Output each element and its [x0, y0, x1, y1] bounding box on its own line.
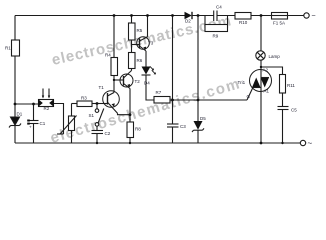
wire fuse to terminal — [288, 15, 305, 17]
wire R10 to fuse — [251, 15, 272, 17]
wire R8 to rail — [129, 138, 131, 144]
LED D4 — [142, 66, 156, 85]
svg-text:C1: C1 — [40, 121, 46, 126]
svg-text:G: G — [247, 94, 251, 99]
svg-text:R1: R1 — [5, 46, 11, 51]
capacitor C2 — [92, 131, 111, 137]
watermark electroschematics.com upper — [50, 12, 232, 69]
junction gate wire / D5 — [197, 99, 200, 102]
svg-text:R4: R4 — [105, 53, 111, 58]
svg-text:R8: R8 — [135, 127, 141, 132]
svg-text:R11: R11 — [287, 83, 295, 88]
wire C3 to rail — [172, 127, 174, 143]
svg-text:D5: D5 — [200, 116, 206, 121]
wire S1 branch — [96, 104, 98, 109]
wire left branch to R2 — [15, 103, 38, 105]
wire pot top lead — [71, 104, 73, 117]
junction bottom rail / C5 — [281, 142, 283, 144]
wire R3 to T1 base — [92, 103, 108, 105]
wire R11 to C5 — [282, 93, 284, 107]
junction lamp / R11 tap — [260, 66, 262, 68]
junction bottom rail / R8 — [129, 142, 131, 144]
svg-text:T1: T1 — [99, 85, 105, 90]
diode D2 — [185, 12, 193, 24]
potentiometer P1 — [57, 116, 77, 135]
wire left rail mid — [14, 56, 16, 117]
junction top rail / R5 — [130, 14, 133, 17]
resistor R1 — [5, 40, 20, 56]
transistor T3 — [137, 37, 154, 51]
svg-text:A2: A2 — [263, 68, 269, 73]
fuse F1 — [272, 13, 288, 26]
wire lamp column — [260, 16, 262, 51]
svg-text:R7: R7 — [156, 90, 162, 95]
resistor R3 — [77, 96, 92, 107]
junction T1 emitter / T2 emitter — [129, 113, 132, 116]
wire T3 emitter to LED — [145, 51, 147, 67]
junction bottom rail / C2 — [96, 142, 98, 144]
wire lamp to triac — [260, 60, 262, 69]
svg-text:R6: R6 — [137, 58, 143, 63]
junction R2 wire / C1 — [32, 103, 35, 106]
wire T1 emitter jog — [118, 113, 131, 115]
wire C1 column — [33, 104, 35, 121]
svg-text:F1 5A: F1 5A — [273, 21, 285, 26]
wire C3 column upper — [172, 16, 174, 125]
wire C5 to rail — [282, 110, 284, 144]
svg-text:R2: R2 — [44, 106, 50, 111]
wire R5 top — [131, 16, 133, 24]
wire gate slant to triac — [247, 88, 253, 101]
lamp — [256, 51, 280, 60]
svg-text:D2: D2 — [185, 19, 191, 24]
wire C1 to rail — [33, 124, 35, 144]
LDR R2 — [38, 89, 54, 112]
transistor T1 — [99, 85, 120, 113]
wire T3 base — [132, 44, 140, 46]
wire top rail C4 to R10 — [217, 15, 235, 17]
junction top rail / R4 — [113, 14, 116, 17]
junction top rail / lamp branch — [260, 14, 263, 17]
junction left rail / R2 branch — [14, 103, 17, 106]
transistor T2 — [120, 71, 140, 89]
svg-text:R3: R3 — [81, 96, 87, 101]
wire T3 collector — [147, 16, 149, 37]
junction R3 wire / S1 — [96, 102, 99, 105]
wire pot bottom lead — [71, 131, 73, 144]
zener diode D5 — [192, 116, 206, 132]
junction top rail / C3 branch — [171, 14, 174, 17]
svg-text:~: ~ — [312, 13, 316, 20]
wire R4 column — [113, 16, 115, 58]
wire left rail lower — [14, 126, 16, 144]
resistor R9 — [205, 25, 228, 39]
wire T2 base — [114, 79, 124, 81]
wire R11 tap — [261, 67, 283, 75]
resistor R11 — [280, 75, 296, 94]
resistor R6 — [129, 53, 143, 69]
svg-text:R10: R10 — [239, 20, 248, 25]
resistor R10 — [235, 13, 251, 25]
wire T1 collector — [113, 76, 115, 93]
capacitor C4 — [214, 5, 223, 22]
terminal bottom — [300, 139, 312, 148]
junction top rail / T3 collector — [146, 14, 149, 17]
switch S1 — [89, 109, 104, 127]
svg-text:+: + — [29, 125, 32, 130]
terminal top — [304, 13, 316, 20]
wire R9 left stub — [204, 16, 206, 29]
wire LED to R7 — [146, 75, 154, 100]
wire T2 collector to R6 — [131, 69, 133, 71]
junction R7 / C3 / gate wire — [171, 99, 174, 102]
wire C2 to rail — [96, 134, 98, 144]
wire pot to R3 — [72, 103, 78, 105]
resistor R5 — [129, 23, 143, 40]
junction R4 / T1 collector / T2 base — [113, 79, 115, 81]
svg-text:C2: C2 — [105, 131, 111, 136]
svg-text:Tri1: Tri1 — [238, 80, 246, 85]
svg-text:D4: D4 — [144, 81, 150, 86]
resistor R7 — [154, 90, 170, 103]
svg-text:C5: C5 — [291, 108, 297, 113]
triac Tri1 — [238, 68, 272, 100]
watermark electroschematics.com lower — [48, 76, 241, 147]
svg-text:R5: R5 — [137, 28, 143, 33]
wire left rail upper — [14, 16, 16, 41]
wire top rail right of D2 — [193, 15, 214, 17]
wire bottom rail — [15, 142, 301, 144]
svg-text:A1: A1 — [264, 89, 270, 94]
wire top rail — [15, 15, 185, 17]
resistor R4 — [105, 53, 118, 76]
svg-text:T3: T3 — [148, 41, 154, 46]
svg-text:~: ~ — [308, 139, 313, 148]
junction top rail / D5 branch — [197, 14, 200, 17]
svg-text:Lamp: Lamp — [269, 54, 281, 59]
svg-text:C4: C4 — [216, 5, 222, 10]
capacitor C5 — [278, 107, 298, 113]
wire D5 to rail — [197, 131, 199, 144]
capacitor C3 — [167, 124, 186, 129]
wire gate horizontal — [173, 99, 248, 101]
svg-text:S1: S1 — [89, 113, 95, 118]
capacitor C1 — [27, 120, 46, 130]
wire R7 to C3 node — [170, 99, 173, 101]
wire R5 to R6 — [131, 40, 133, 53]
wire R9 right stub — [227, 16, 229, 29]
svg-text:C3: C3 — [180, 124, 186, 129]
svg-text:D1: D1 — [17, 112, 23, 117]
wire D5 column — [197, 16, 199, 122]
wire S1 to C2 — [96, 126, 98, 130]
wire triac to rail — [260, 92, 262, 144]
resistor R8 — [127, 122, 141, 138]
svg-text:T2: T2 — [135, 79, 141, 84]
wire T2 emitter column — [129, 89, 131, 123]
svg-text:R9: R9 — [213, 34, 219, 39]
wire R2 to pot wiper — [54, 104, 64, 135]
junction bottom rail / triac A1 — [260, 142, 263, 145]
zener diode D1 — [9, 112, 23, 128]
